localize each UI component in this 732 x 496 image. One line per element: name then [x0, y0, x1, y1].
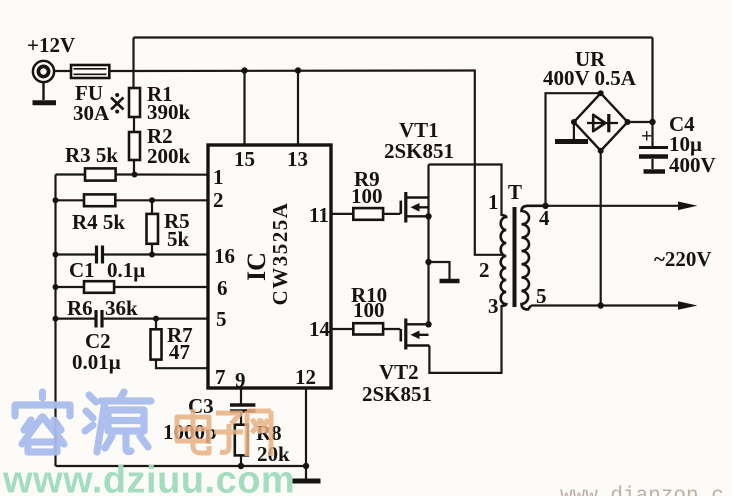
node bus-C1	[53, 252, 59, 258]
fuse FU 30A	[71, 65, 109, 78]
capacitor C1	[97, 246, 103, 264]
resistor R1	[129, 88, 140, 117]
IC vertical text	[242, 202, 292, 306]
svg-text:0.01μ: 0.01μ	[72, 350, 121, 374]
ground under C4	[644, 169, 666, 174]
symbol: asterisk mark	[111, 93, 124, 114]
svg-text:5: 5	[536, 284, 547, 308]
wire: VT1 drain top path to transformer tap 1	[429, 165, 502, 217]
svg-text:47: 47	[169, 340, 190, 364]
wire: R3 row to IC pin 1	[56, 173, 209, 175]
resistor R8	[235, 425, 248, 456]
wire: feedback top wire from R1 top to bridge DC+	[134, 36, 653, 38]
svg-text:6: 6	[217, 276, 228, 300]
ground between VT1 and VT2	[440, 279, 460, 284]
wire: R8 to bottom rail	[240, 455, 242, 466]
wire: C1 row to IC pin 16	[56, 253, 209, 255]
node pin15 tap	[241, 67, 247, 73]
ground at bottom rail	[293, 479, 321, 484]
capacitor C3	[230, 405, 255, 411]
arrow output upper	[678, 202, 697, 211]
node bus-R6	[53, 284, 59, 290]
resistor R6	[84, 281, 114, 293]
svg-text:1: 1	[488, 190, 499, 214]
node tap5 junction	[598, 302, 604, 308]
wire: +12V top rail from terminal through fuse to VT1/T branch	[54, 69, 471, 72]
resistor R4	[84, 194, 115, 206]
wire: +12V drop to transformer tap 2	[471, 71, 503, 255]
wire: VT1 drain drop	[427, 165, 429, 198]
wire: left bus vertical	[54, 175, 56, 467]
resistor R5	[147, 214, 159, 244]
node bridge top	[598, 90, 604, 96]
terminal +12V input	[33, 61, 57, 103]
wire: output line upper with tap 4	[546, 205, 684, 207]
wire: output line lower with tap 5	[531, 304, 683, 306]
svg-text:R4 5k: R4 5k	[72, 210, 125, 234]
resistor R3	[85, 168, 116, 180]
capacitor C2	[96, 310, 102, 328]
svg-text:11: 11	[309, 203, 329, 227]
svg-text:R6: R6	[67, 296, 93, 320]
diode bridge UR	[574, 93, 628, 151]
ground at bridge left corner	[555, 139, 588, 144]
watermark dianziwang orange characters	[177, 409, 271, 456]
wire: R4 row to IC pin 2	[56, 199, 209, 201]
node VT1 source	[425, 213, 431, 219]
wire: pin 15 drop from +12V rail	[243, 71, 245, 146]
svg-text:T: T	[508, 180, 522, 204]
wire: R2 bottom to pin1 node	[133, 160, 135, 175]
wire: mid ground branch	[429, 262, 450, 279]
svg-text:2SK851: 2SK851	[362, 382, 432, 406]
svg-text:15: 15	[234, 147, 255, 171]
svg-text:1: 1	[213, 165, 224, 189]
svg-text:R3 5k: R3 5k	[65, 143, 118, 167]
node R2/R3/pin1	[132, 172, 138, 178]
svg-text:400V 0.5A: 400V 0.5A	[543, 66, 637, 90]
wire: C4 stem bottom	[651, 159, 653, 169]
svg-text:200k: 200k	[147, 144, 191, 168]
resistor R2	[129, 132, 140, 160]
wire: IC pin 14 to R10 and VT2 gate	[331, 328, 400, 330]
svg-text:30A: 30A	[73, 101, 110, 125]
wire: IC pin 11 to R9 and VT1 gate	[331, 213, 400, 215]
node bridge bottom	[598, 148, 604, 154]
capacitor C4	[639, 148, 668, 157]
svg-text:14: 14	[309, 317, 331, 341]
svg-text:100: 100	[353, 298, 385, 322]
svg-text:12: 12	[295, 365, 316, 389]
wire: IC pin 12 drop to bottom rail	[305, 388, 307, 466]
wire: C4 node up to feedback top wire	[651, 38, 653, 123]
resistor R9	[353, 208, 383, 220]
wire: IC pin 9 drop to C3	[240, 388, 242, 404]
svg-text:www.dziuu.com: www.dziuu.com	[2, 460, 295, 496]
node C4 top	[649, 119, 655, 125]
wire: R5 bottom stub	[151, 244, 153, 255]
svg-text:5k: 5k	[167, 227, 190, 251]
node pin13 tap	[295, 67, 301, 73]
svg-text:IC: IC	[242, 252, 271, 281]
svg-text:3: 3	[488, 294, 499, 318]
wire: R6 row to IC pin 6	[56, 286, 209, 288]
node R8 rail	[238, 463, 244, 469]
wire: R5 top stub	[151, 200, 153, 214]
transformer core	[513, 207, 517, 307]
svg-text:CW3525A: CW3525A	[268, 202, 292, 306]
svg-text:390k: 390k	[147, 100, 191, 124]
wire: bridge right corner to C4 node	[628, 121, 653, 123]
svg-text:9: 9	[235, 368, 246, 392]
wire: bridge bottom corner drop to output line	[600, 151, 602, 306]
wire: bridge left corner ground stub	[573, 122, 575, 139]
svg-text:2SK851: 2SK851	[384, 139, 454, 163]
wire: bottom ground rail	[56, 465, 307, 467]
wire: R7 top stub	[155, 319, 157, 330]
watermark rongyuan blue characters	[15, 392, 151, 452]
node bus-R4	[53, 197, 59, 203]
node tap4 junction	[542, 203, 548, 209]
node R5 top	[149, 197, 155, 203]
node bridge left	[571, 119, 577, 125]
svg-text:0.1μ: 0.1μ	[107, 258, 145, 282]
svg-text:13: 13	[287, 147, 308, 171]
node pin12 rail	[303, 463, 309, 469]
wire: bridge top corner to transformer tap 4	[546, 93, 601, 206]
svg-text:C1: C1	[69, 258, 95, 282]
svg-text:36k: 36k	[105, 296, 138, 320]
transformer T secondary winding	[522, 206, 546, 310]
wire: ground stem at rail right	[305, 466, 307, 479]
node VT2 source	[425, 321, 431, 327]
transformer T primary winding	[501, 215, 507, 306]
wire: C4 stem top	[651, 122, 653, 146]
svg-text:~220V: ~220V	[654, 247, 712, 271]
node R7 top	[153, 316, 159, 322]
node ground branch	[425, 259, 431, 265]
transistor Q2: VT2 MOSFET symbol	[401, 319, 430, 350]
wire: C2 row to IC pin 5	[56, 318, 209, 320]
svg-text:16: 16	[214, 244, 235, 268]
wire: R1-R2 link	[133, 117, 135, 132]
node R5 bottom	[149, 252, 155, 258]
wire: VT2 drain bottom path to transformer tap 3	[429, 305, 501, 373]
op-amp U1: IC CW3525A body	[208, 145, 331, 388]
svg-text:5: 5	[216, 307, 227, 331]
node bus-C2	[53, 316, 59, 322]
svg-text:100: 100	[351, 184, 383, 208]
svg-text:4: 4	[539, 206, 550, 230]
wire: R7 bottom to IC pin 7	[156, 360, 208, 369]
svg-text:www.dianzon.c: www.dianzon.c	[560, 485, 724, 496]
transistor Q1: VT1 MOSFET symbol	[401, 192, 429, 223]
resistor R7	[151, 329, 162, 359]
wire: vertical R1 feed from top wire crossing +12V rail	[132, 38, 134, 89]
svg-text:+: +	[641, 126, 652, 148]
svg-text:VT2: VT2	[379, 360, 419, 384]
svg-text:400V: 400V	[669, 153, 716, 177]
wire: pin 13 drop from +12V rail	[297, 71, 299, 146]
node bridge right	[625, 119, 631, 125]
wire: C3 to R8	[240, 413, 242, 425]
wire: common source vertical VT1 to VT2	[427, 198, 429, 325]
svg-text:2: 2	[213, 188, 224, 212]
resistor R10	[353, 323, 383, 334]
svg-text:7: 7	[215, 365, 226, 389]
svg-text:+12V: +12V	[27, 33, 75, 57]
arrow output lower	[678, 301, 697, 310]
svg-text:2: 2	[479, 258, 490, 282]
